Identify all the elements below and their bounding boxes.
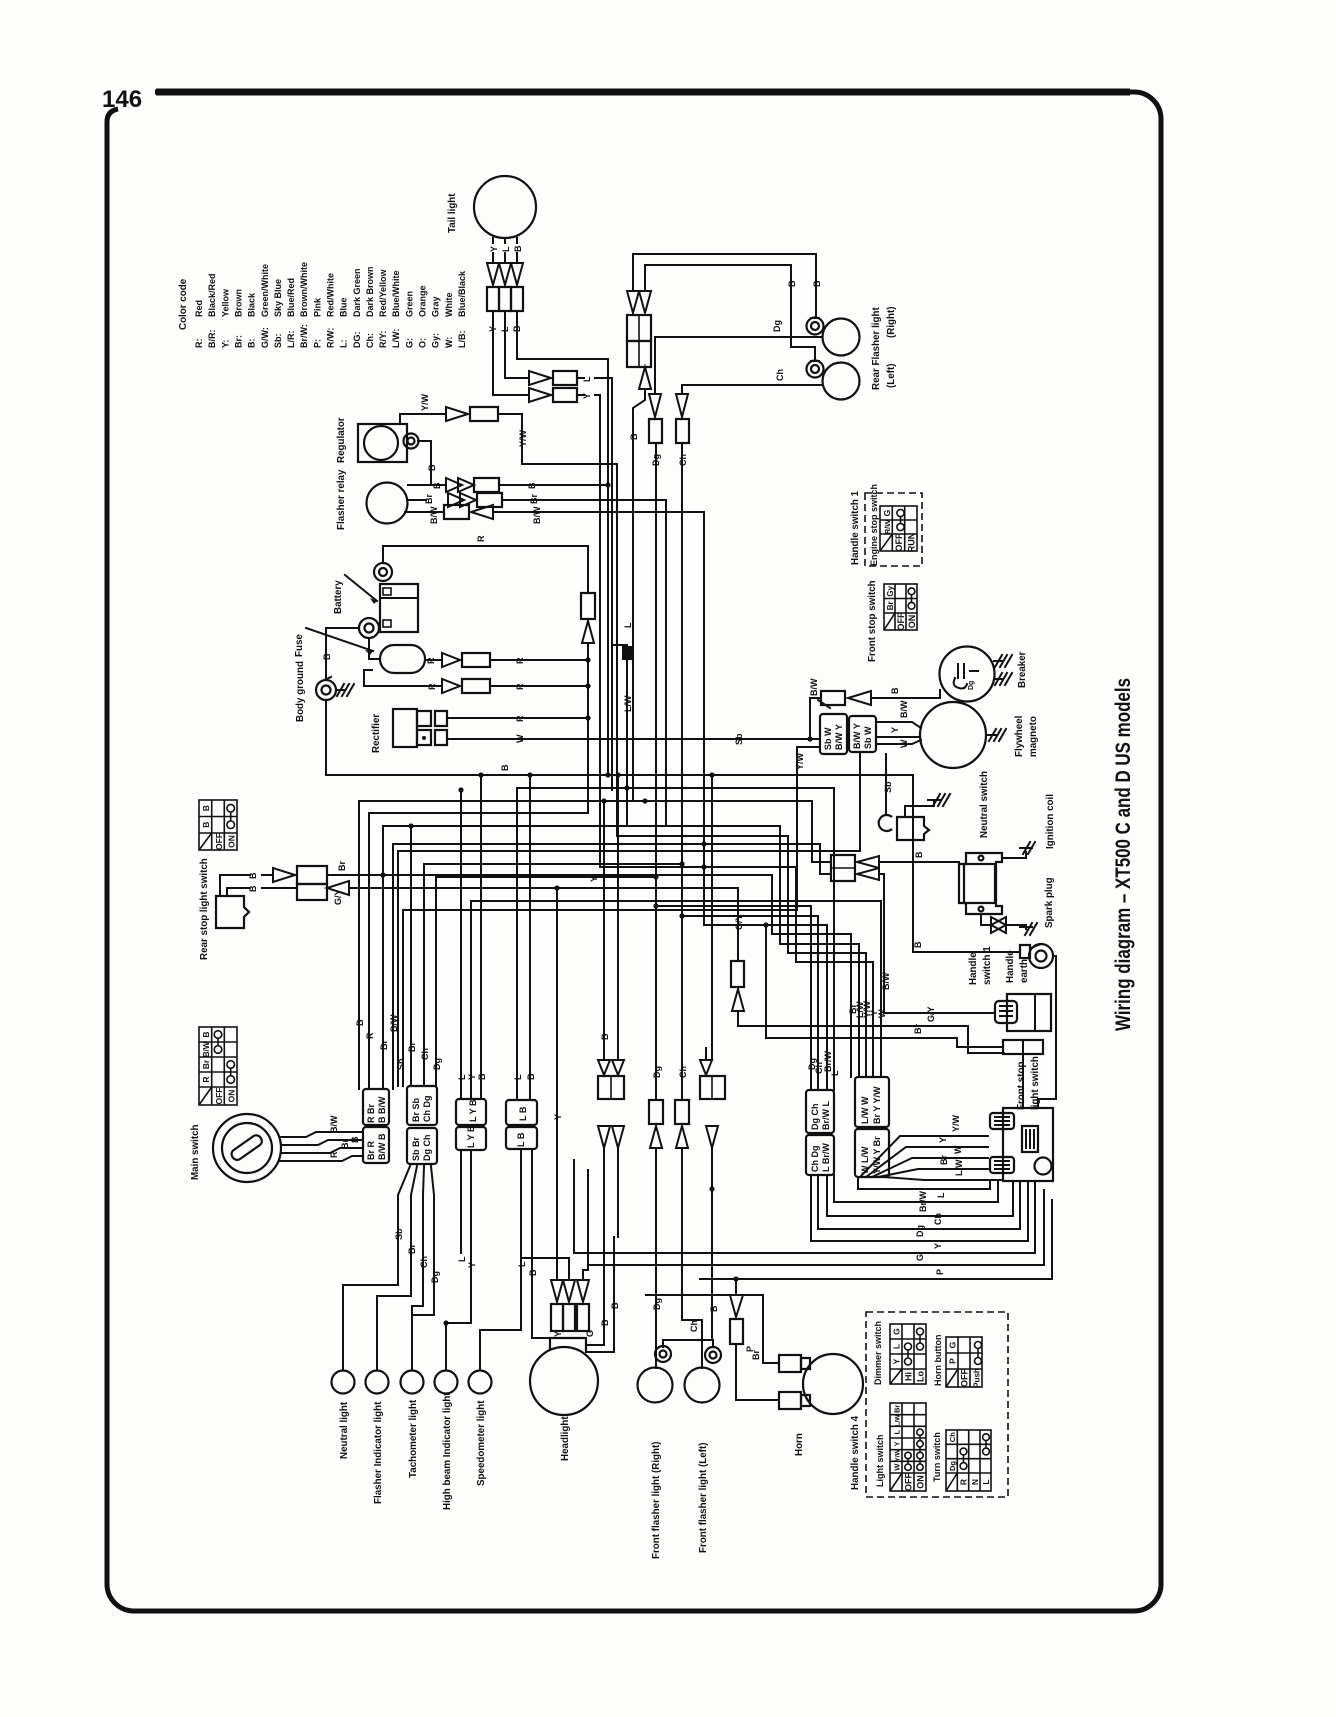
svg-text:R:: R:: [194, 339, 204, 349]
B wire to flashers and horn: [663, 1148, 712, 1347]
svg-text:L: L: [830, 1070, 840, 1076]
svg-text:L B: L B: [518, 1106, 528, 1121]
svg-text:light switch: light switch: [1030, 1056, 1041, 1110]
svg-text:G: G: [892, 1328, 902, 1335]
wire: body ground B up to battery: [326, 628, 359, 680]
svg-text:W L/W: W L/W: [860, 1146, 870, 1174]
svg-text:Regulator: Regulator: [336, 417, 347, 463]
B bus line: [326, 775, 1020, 952]
svg-text:Br: Br: [886, 601, 895, 610]
svg-text:B: B: [201, 805, 211, 811]
svg-text:Flasher Indicator light: Flasher Indicator light: [373, 1401, 384, 1504]
svg-text:B/R:: B/R:: [207, 330, 217, 349]
dimmer switch table: [890, 1324, 926, 1384]
svg-text:G/Y: G/Y: [333, 889, 343, 905]
svg-text:Handle: Handle: [1005, 950, 1016, 983]
svg-text:Sb W: Sb W: [863, 726, 873, 749]
high beam indicator light: [435, 1371, 458, 1394]
main switch lead wires: [280, 1132, 363, 1137]
svg-text:B: B: [913, 941, 923, 948]
svg-text:Ch Dg: Ch Dg: [810, 1146, 820, 1173]
svg-text:magneto: magneto: [1028, 716, 1039, 757]
svg-text:Handle switch 4: Handle switch 4: [850, 1415, 861, 1490]
svg-text:Br: Br: [337, 861, 347, 871]
svg-text:Ch: Ch: [775, 369, 785, 381]
front stop switch fan wires: [860, 1136, 988, 1177]
svg-text:G: G: [585, 1330, 595, 1337]
svg-text:R: R: [515, 683, 525, 690]
svg-text:G/W:: G/W:: [260, 327, 270, 348]
wire: L to harness: [577, 378, 612, 790]
speedometer light: [469, 1371, 492, 1394]
svg-text:Br: Br: [379, 1040, 389, 1050]
flasher relay: [367, 483, 408, 524]
svg-text:Pink: Pink: [312, 297, 322, 317]
svg-text:P: P: [948, 1358, 958, 1364]
svg-text:Y: Y: [892, 1358, 902, 1364]
rectifier R row: [447, 717, 588, 719]
L bus line: [517, 788, 834, 1100]
headlight B wires: [586, 1149, 604, 1345]
svg-text:OFF: OFF: [894, 533, 904, 551]
svg-text:R/W:: R/W:: [326, 328, 336, 348]
wire: Ch bullet down / vertical to inline connector: [681, 443, 683, 1100]
ring terminal left flasher: [807, 361, 824, 378]
svg-text:Hi: Hi: [904, 1372, 914, 1381]
wire: regulator Y/W to harness: [400, 414, 446, 424]
svg-text:RUN: RUN: [907, 533, 917, 553]
svg-text:Rectifier: Rectifier: [371, 714, 382, 753]
svg-text:Y/W: Y/W: [420, 393, 430, 411]
svg-text:B/W: B/W: [532, 506, 542, 524]
svg-text:B/W Y: B/W Y: [852, 723, 862, 749]
svg-text:earth: earth: [1019, 959, 1030, 983]
svg-text:B/W B: B/W B: [377, 1133, 387, 1160]
svg-text:Handle switch 1: Handle switch 1: [850, 490, 861, 565]
svg-text:W: W: [877, 1009, 887, 1018]
ignition coil: [959, 853, 1002, 914]
svg-text:Speedometer light: Speedometer light: [476, 1400, 487, 1486]
svg-text:Breaker: Breaker: [1017, 651, 1028, 688]
svg-text:W:: W:: [444, 337, 454, 348]
svg-text:Green: Green: [404, 291, 414, 317]
R bullet connector on x=588: [581, 593, 595, 619]
L splice and L/W run: [612, 645, 859, 1077]
zigzag Ch to mid connector: [682, 916, 818, 1090]
horn P wire: [735, 1279, 737, 1295]
svg-text:Dg: Dg: [652, 1298, 662, 1310]
svg-text:Dg: Dg: [948, 1461, 957, 1471]
main switch table: [199, 1027, 237, 1105]
svg-text:Sb: Sb: [734, 733, 744, 745]
svg-text:B: B: [787, 280, 797, 287]
svg-text:L/W: L/W: [895, 1414, 902, 1427]
top rule (thicker): [156, 89, 1130, 96]
svg-text:Y: Y: [589, 876, 599, 882]
svg-text:Turn switch: Turn switch: [932, 1432, 942, 1482]
svg-text:Y: Y: [938, 1137, 948, 1143]
svg-text:B/W Y: B/W Y: [834, 724, 844, 750]
svg-text:Y: Y: [553, 1114, 563, 1120]
svg-text:Y: Y: [933, 1243, 943, 1249]
svg-text:(Left): (Left): [886, 364, 897, 388]
svg-text:Blue/Black: Blue/Black: [457, 270, 467, 317]
svg-text:Battery: Battery: [333, 580, 344, 614]
svg-text:G: G: [882, 509, 892, 516]
svg-text:L: L: [893, 1429, 902, 1434]
wire: regulator B down to flasher relay B row: [418, 441, 431, 485]
svg-text:W: W: [899, 739, 909, 748]
lamp connector feeds from buses: [460, 790, 462, 1099]
svg-text:Sb: Sb: [394, 1228, 404, 1240]
front stop light switch unit: [1003, 1108, 1053, 1181]
svg-text:Br Sb: Br Sb: [411, 1097, 421, 1122]
rear flasher light (Left): [823, 363, 860, 400]
svg-text:B: B: [322, 653, 332, 660]
svg-text:Gy: Gy: [886, 585, 895, 596]
svg-text:R: R: [515, 715, 525, 722]
svg-text:B: B: [248, 885, 258, 892]
magneto leads: [876, 722, 921, 728]
svg-text:Br R: Br R: [366, 1140, 376, 1160]
svg-text:L: L: [501, 246, 511, 252]
handle switch 1 unit: [1007, 994, 1051, 1031]
svg-text:ON: ON: [227, 835, 237, 848]
speedometer lamp L wire: [480, 1149, 521, 1370]
svg-text:B: B: [248, 872, 258, 879]
svg-text:Ch: Ch: [689, 1320, 699, 1332]
front flasher light (Left): [685, 1368, 720, 1403]
svg-text:Dg: Dg: [772, 320, 782, 332]
svg-text:R: R: [515, 657, 525, 664]
engine stop switch table: [880, 506, 917, 552]
Ch wire to front flasher left: [682, 1148, 702, 1368]
Dg bullet connector: [649, 394, 661, 417]
R branch main switch: [369, 812, 588, 814]
svg-text:B: B: [610, 1302, 620, 1309]
svg-text:Neutral light: Neutral light: [339, 1401, 350, 1459]
svg-text:White: White: [444, 293, 454, 318]
svg-text:ON: ON: [907, 615, 917, 629]
wire: battery minus to fuse: [369, 638, 380, 659]
svg-text:B/W: B/W: [899, 700, 909, 718]
svg-text:Wiring diagram – XT500 C and D: Wiring diagram – XT500 C and D US models: [1112, 678, 1135, 1031]
svg-text:Light switch: Light switch: [875, 1435, 885, 1488]
svg-text:Y: Y: [890, 727, 900, 733]
svg-text:B: B: [526, 1073, 536, 1080]
Dg branch: [436, 876, 656, 878]
svg-text:Front stop: Front stop: [1016, 1062, 1027, 1110]
handle switch 4 dashed box: [866, 1312, 1008, 1497]
svg-text:L: L: [623, 622, 633, 628]
svg-text:OFF: OFF: [896, 612, 906, 630]
Y line: [600, 867, 873, 1077]
svg-text:B: B: [427, 464, 437, 471]
handle earth wire: [1038, 956, 1056, 1108]
svg-text:Black/Red: Black/Red: [207, 273, 217, 317]
svg-text:L: L: [457, 1074, 467, 1080]
rectifier: [393, 709, 417, 747]
flasher relay B row: [408, 484, 444, 486]
svg-text:Flywheel: Flywheel: [1014, 715, 1025, 757]
central 4-way connector: [627, 291, 639, 313]
svg-text:Br:: Br:: [234, 335, 244, 348]
svg-text:Engine stop switch: Engine stop switch: [869, 484, 879, 566]
Dg inline connector: [649, 1100, 663, 1124]
svg-text:L/W: L/W: [623, 695, 633, 712]
Br branch main switch: [383, 825, 666, 827]
rear stop light switch wires: [220, 875, 250, 896]
svg-text:B: B: [914, 851, 924, 858]
svg-text:Headlight: Headlight: [560, 1416, 571, 1461]
svg-text:OFF: OFF: [214, 833, 224, 850]
svg-text:Spark plug: Spark plug: [1044, 877, 1055, 928]
svg-text:L/B:: L/B:: [457, 331, 467, 349]
body ground: [316, 680, 336, 700]
Br link to handle switch 1 connector: [766, 925, 1003, 1047]
svg-text:Lo: Lo: [916, 1371, 926, 1382]
svg-text:B:: B:: [247, 339, 257, 349]
svg-text:L/W W: L/W W: [860, 1096, 870, 1124]
L Y B verticals below lamp connector: [460, 1150, 462, 1253]
handle earth terminal tab: [1020, 945, 1030, 958]
svg-text:Ch Dg: Ch Dg: [422, 1096, 432, 1123]
speedo connector blocks L B: [506, 1100, 537, 1125]
svg-text:G: G: [915, 1254, 925, 1261]
svg-text:Y: Y: [893, 1441, 902, 1446]
svg-text:G:: G:: [404, 338, 414, 348]
svg-text:R: R: [365, 1032, 375, 1039]
svg-text:R Br: R Br: [366, 1104, 376, 1123]
flasher indicator light: [366, 1371, 389, 1394]
Sb branch: [397, 851, 399, 1086]
B inline connector pair: [700, 1076, 725, 1099]
svg-text:Red: Red: [194, 300, 204, 317]
svg-text:Br Y Y/W: Br Y Y/W: [872, 1086, 882, 1124]
horn: [803, 1354, 863, 1414]
svg-text:Y: Y: [467, 1262, 477, 1268]
svg-text:Dg Ch: Dg Ch: [422, 1135, 432, 1162]
svg-text:Black: Black: [247, 292, 257, 317]
svg-text:B/W: B/W: [429, 506, 439, 524]
main switch: [213, 1114, 281, 1182]
svg-text:Dg: Dg: [652, 1066, 662, 1078]
svg-text:Br: Br: [751, 1350, 761, 1360]
handle earth: [1029, 944, 1053, 968]
Ch branch: [424, 863, 682, 865]
svg-text:Flasher relay: Flasher relay: [336, 469, 347, 530]
ignition coil ground: [1002, 842, 1035, 858]
svg-text:Br: Br: [407, 1042, 417, 1052]
svg-text:R: R: [476, 535, 486, 542]
neutral switch: [897, 817, 929, 840]
svg-text:B/W: B/W: [329, 1115, 339, 1133]
svg-text:Front flasher light (Left): Front flasher light (Left): [698, 1443, 709, 1553]
wire: tail light Y lead down to connector row: [493, 311, 529, 395]
wire: Dg from bullet up and right to rear flasher (Right): [655, 337, 822, 394]
svg-text:Sb W: Sb W: [823, 727, 833, 750]
handle switch 4 connector upper: [855, 1077, 889, 1127]
svg-text:Br: Br: [340, 1139, 350, 1149]
svg-text:R: R: [426, 657, 436, 664]
svg-text:Blue/White: Blue/White: [391, 271, 401, 318]
indicator lamp connector blocks L Y B: [456, 1099, 486, 1125]
svg-text:DG:: DG:: [352, 332, 362, 349]
wire: body ground B down to B bus: [325, 700, 327, 775]
wire: central connector left col up over to right flasher B: [633, 254, 816, 318]
wire: tail light L lead down to connector row: [505, 311, 529, 378]
front stop switch table: [884, 584, 917, 631]
B wire to headlight left: [532, 1149, 551, 1338]
svg-text:L/W: L/W: [954, 1159, 964, 1176]
svg-text:Y:: Y:: [220, 340, 230, 348]
svg-text:Blue/Red: Blue/Red: [286, 278, 296, 317]
svg-text:146: 146: [102, 86, 142, 113]
svg-text:Color code: Color code: [178, 278, 189, 330]
tail light female connectors: [487, 287, 499, 311]
horn Br wire: [646, 1295, 779, 1363]
bottom right bus lines: [858, 1177, 990, 1189]
svg-text:Br: Br: [913, 1024, 923, 1034]
svg-text:Br/W: Br/W: [823, 1050, 833, 1072]
svg-text:Sb: Sb: [396, 1058, 406, 1070]
wire: Y to harness: [577, 395, 600, 867]
Y connector pair: [529, 388, 551, 402]
svg-text:High beam Indicator light: High beam Indicator light: [442, 1392, 453, 1510]
tachometer light: [401, 1371, 424, 1394]
svg-text:Y/W: Y/W: [895, 1448, 902, 1461]
svg-text:Orange: Orange: [418, 285, 428, 317]
inline coupler to ignition coil and handle switch 1: [831, 855, 855, 881]
svg-text:R: R: [201, 1076, 211, 1082]
svg-text:Dg: Dg: [915, 1225, 925, 1237]
svg-text:B: B: [890, 687, 900, 694]
Sb to neutral switch: [859, 754, 861, 851]
rear flasher light (Right): [823, 319, 860, 356]
wire: central connector bottom to B bus: [633, 389, 645, 801]
svg-text:OFF: OFF: [904, 1473, 914, 1491]
svg-text:L/W:: L/W:: [391, 329, 401, 348]
main switch connector blocks: [363, 1089, 389, 1125]
flasher relay B/W row: [405, 511, 442, 513]
svg-text:R: R: [427, 683, 437, 690]
svg-text:Horn button: Horn button: [933, 1335, 943, 1386]
svg-text:Y/W: Y/W: [795, 752, 805, 770]
svg-text:Br/W: Br/W: [918, 1190, 928, 1212]
rear stop light switch: [216, 896, 249, 928]
high beam lamp Y wire: [446, 1150, 471, 1370]
svg-text:R: R: [329, 1151, 339, 1158]
svg-text:Br: Br: [201, 1059, 211, 1069]
turn switch table: [946, 1430, 991, 1491]
svg-text:L: L: [936, 1192, 946, 1198]
svg-text:Gy:: Gy:: [431, 333, 441, 348]
svg-text:Dimmer switch: Dimmer switch: [873, 1321, 883, 1385]
svg-text:Rear stop light switch: Rear stop light switch: [199, 858, 210, 960]
ring terminal right flasher: [807, 318, 824, 335]
B branch main switch: [359, 800, 812, 802]
inline connectors above headlight area: [598, 1060, 610, 1075]
wire: Dg bullet down / vertical to inline connector: [655, 443, 657, 1100]
page border frame: [107, 92, 1161, 1611]
wire: battery R feed: [383, 546, 588, 593]
regulator: [358, 424, 407, 462]
fuse: [380, 645, 425, 673]
Br branch second connector: [410, 826, 412, 1086]
svg-text:B: B: [500, 764, 510, 771]
zigzag Br/W to mid connector: [704, 925, 827, 1090]
flywheel magneto: [920, 702, 986, 768]
svg-text:Tail light: Tail light: [447, 193, 458, 233]
svg-text:B B/W: B B/W: [377, 1096, 387, 1123]
svg-text:B: B: [527, 482, 537, 489]
svg-text:Y: Y: [467, 1074, 477, 1080]
Y wire to headlight: [556, 888, 558, 1280]
Ch inline connector: [675, 1100, 689, 1124]
svg-text:Sb Br: Sb Br: [411, 1136, 421, 1161]
light switch table: [890, 1403, 926, 1491]
svg-text:B: B: [600, 1033, 610, 1040]
svg-text:Ch: Ch: [933, 1213, 943, 1225]
flasher relay Br row: [407, 499, 426, 501]
Br line from rear stop switch: [327, 875, 851, 1077]
svg-text:L: L: [517, 1261, 527, 1267]
svg-text:Ignition coil: Ignition coil: [1045, 794, 1056, 849]
fuse R row 1: [425, 659, 440, 661]
battery ring terminals: [374, 563, 392, 581]
svg-text:Ch: Ch: [948, 1432, 957, 1442]
svg-text:Green/White: Green/White: [260, 264, 270, 317]
svg-text:Br: Br: [424, 494, 434, 504]
svg-text:Yellow: Yellow: [220, 288, 230, 317]
svg-text:OFF: OFF: [214, 1088, 224, 1105]
svg-text:(Right): (Right): [886, 306, 897, 338]
front flasher light (Right): [638, 1368, 673, 1403]
svg-text:B/W: B/W: [881, 972, 891, 990]
svg-text:B: B: [477, 1073, 487, 1080]
breaker: [940, 647, 995, 702]
rear stop light switch table: [199, 800, 237, 850]
svg-text:Dg: Dg: [968, 681, 975, 690]
svg-text:L: L: [457, 1256, 467, 1262]
svg-text:Main switch: Main switch: [190, 1124, 201, 1180]
svg-text:W: W: [893, 1463, 902, 1471]
svg-text:Br: Br: [529, 494, 539, 504]
svg-text:Blue: Blue: [339, 297, 349, 317]
battery: [380, 584, 418, 632]
svg-text:Gray: Gray: [431, 296, 441, 317]
svg-text:B: B: [350, 1136, 360, 1143]
magneto connector block: [820, 714, 847, 754]
svg-text:Sky Blue: Sky Blue: [273, 279, 283, 317]
svg-text:L Y B: L Y B: [468, 1099, 478, 1122]
svg-text:Fuse: Fuse: [294, 634, 305, 657]
fuse R row 2: [364, 670, 440, 686]
svg-text:Brown: Brown: [234, 289, 244, 317]
svg-text:Br/W L: Br/W L: [821, 1101, 831, 1130]
headlight: [530, 1347, 598, 1415]
svg-text:Horn: Horn: [794, 1433, 805, 1456]
svg-text:Dark Green: Dark Green: [352, 268, 362, 317]
svg-text:Y: Y: [553, 1331, 563, 1337]
svg-text:B/W: B/W: [809, 678, 819, 696]
harness connector blocks (Sb Dg Ch Br): [407, 1086, 437, 1125]
zigzag Dg to mid connector: [656, 906, 811, 1090]
svg-text:Handle: Handle: [968, 952, 979, 985]
svg-text:G: G: [948, 1341, 958, 1348]
svg-text:B: B: [629, 433, 639, 440]
handle switch 1 connector downlink: [1022, 1054, 1024, 1108]
